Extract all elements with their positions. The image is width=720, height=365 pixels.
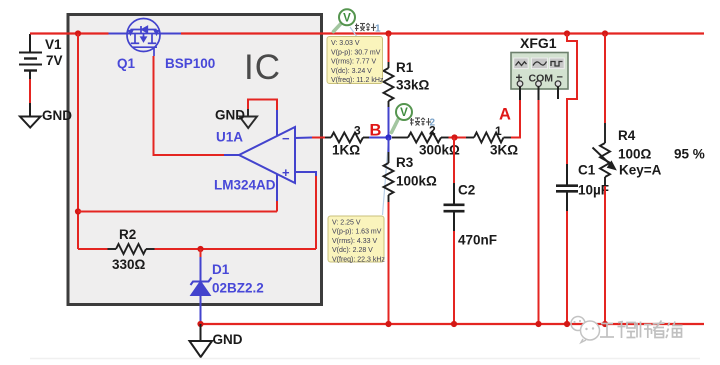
svg-text:V: V: [343, 13, 351, 25]
svg-text:XFG1: XFG1: [520, 35, 557, 51]
ground GND (op-amp): [240, 117, 258, 129]
diode D1 02BZ2.2 zener: [191, 257, 212, 323]
svg-text:33kΩ: 33kΩ: [396, 78, 430, 93]
capacitor C2 470nF: [444, 183, 465, 231]
junction dot (78,33.5): [75, 30, 81, 36]
wire minus input red: [312, 137, 325, 139]
svg-text:R3: R3: [396, 155, 414, 170]
svg-text:V(rms): 4.33 V: V(rms): 4.33 V: [332, 238, 377, 245]
watermark logo bubbles: [571, 317, 600, 343]
wire 1K to node B blue: [369, 137, 389, 139]
svg-text:V(p-p): 30.7 mV: V(p-p): 30.7 mV: [331, 49, 381, 56]
probe 1 circle: [339, 9, 355, 25]
svg-text:V1: V1: [45, 37, 62, 52]
wire op-amp vee down: [276, 201, 278, 212]
svg-text:V(freq): 11.2 kHz: V(freq): 11.2 kHz: [331, 77, 384, 84]
capacitor C1 10uF: [556, 164, 578, 211]
wire R4 bottom red: [604, 186, 606, 324]
junction dot (454.5,137.5): [451, 134, 457, 140]
transistor Q1 BSP100: [127, 19, 160, 57]
wire C1 bottom red: [566, 211, 568, 324]
svg-text:IC: IC: [244, 48, 281, 87]
junction dot (605,324): [602, 321, 608, 327]
op-amp U1A LM324AD: [239, 109, 316, 201]
svg-text:Key=A: Key=A: [619, 163, 662, 178]
svg-text:V(freq): 22.3 kHz: V(freq): 22.3 kHz: [332, 256, 385, 263]
wire Q1 source lead blue left: [109, 33, 129, 35]
probe 1 callout line: [350, 27, 357, 37]
pin stub XFG com: [538, 87, 540, 101]
label probe2 (tan zhen 2): [410, 118, 431, 126]
junction dot (454,324): [451, 321, 457, 327]
svg-text:A: A: [499, 106, 511, 124]
wire R1 top red: [388, 34, 390, 63]
wire op-amp vcc to GND: [248, 100, 277, 111]
svg-text:7V: 7V: [46, 53, 63, 68]
junction node B dot: [385, 134, 391, 140]
wire red at junction 454: [449, 137, 467, 139]
potentiometer R4 100ohm: [593, 123, 616, 186]
label probe1 (tan zhen 1): [355, 24, 376, 32]
junction dot (389,33.5): [385, 30, 391, 36]
svg-text:GND: GND: [213, 332, 243, 347]
wire XFG com down: [538, 100, 540, 324]
svg-text:V(dc): 2.28 V: V(dc): 2.28 V: [332, 247, 373, 254]
svg-text:LM324AD: LM324AD: [214, 178, 276, 193]
ground GND (battery): [20, 117, 41, 128]
svg-text:BSP100: BSP100: [165, 56, 215, 71]
resistor 3Kohm (net 1): [466, 133, 511, 143]
measurement box probe 2: [328, 216, 384, 262]
svg-text:95 %: 95 %: [674, 147, 705, 162]
wire feedback horizontal y=211.5: [78, 211, 277, 213]
junction dot (605,33.5): [602, 30, 608, 36]
svg-text:V(dc): 3.24 V: V(dc): 3.24 V: [331, 68, 372, 75]
battery V1: [19, 34, 42, 116]
probe 2 stem: [392, 119, 399, 133]
junction dot (567,324): [564, 321, 570, 327]
measurement box probe 1: [327, 37, 383, 84]
wire op-amp output stub blue: [224, 154, 239, 156]
wire to bottom GND: [200, 324, 202, 341]
svg-text:330Ω: 330Ω: [112, 257, 146, 272]
svg-text:R2: R2: [119, 227, 136, 242]
svg-text:V(p-p): 1.63 mV: V(p-p): 1.63 mV: [332, 229, 382, 236]
pin stub XFG plus: [519, 87, 521, 101]
svg-text:2: 2: [429, 124, 436, 138]
resistor 1Kohm (net 3): [325, 133, 369, 143]
faint bottom artifact line: [30, 358, 700, 360]
svg-text:R1: R1: [396, 60, 414, 75]
svg-text:D1: D1: [212, 262, 230, 277]
watermark text gong cheng shi kan hai: [600, 321, 683, 339]
svg-text:V(rms): 7.77 V: V(rms): 7.77 V: [331, 59, 376, 66]
svg-text:C2: C2: [458, 183, 475, 198]
svg-text:GND: GND: [42, 108, 72, 123]
wire plus input down to R2 row: [315, 176, 317, 249]
wire bottom rail (GND net): [201, 323, 705, 325]
wire R2 row left red: [78, 248, 108, 250]
svg-text:470nF: 470nF: [458, 233, 497, 248]
resistor 300kohm (net 2): [392, 133, 449, 143]
svg-text:C1: C1: [578, 163, 596, 178]
probe 2 callout line: [383, 140, 389, 215]
resistor R2 330ohm: [108, 244, 155, 254]
svg-text:100Ω: 100Ω: [618, 147, 652, 162]
wire R3 bottom red: [388, 202, 390, 324]
svg-text:R4: R4: [618, 128, 636, 143]
ground GND (bottom): [190, 341, 213, 357]
svg-text:V: 3.03 V: V: 3.03 V: [331, 40, 360, 47]
probe 1 stem: [334, 24, 342, 32]
wire battery negative (red segment): [29, 79, 31, 103]
wire top rail (7V net): [30, 32, 109, 34]
wire left vertical x=78: [77, 34, 79, 250]
svg-text:U1A: U1A: [216, 130, 243, 145]
junction dot (538.5,324): [535, 321, 541, 327]
wire node B down blue: [388, 138, 390, 153]
svg-text:Q1: Q1: [117, 56, 136, 71]
junction dot (201,324): [197, 321, 203, 327]
svg-text:100kΩ: 100kΩ: [396, 174, 437, 189]
junction dot (78,211.5): [75, 208, 81, 214]
svg-text:3: 3: [354, 124, 361, 138]
svg-text:1: 1: [375, 24, 381, 35]
svg-text:V: 2.25 V: V: 2.25 V: [332, 220, 361, 227]
probe 2 circle: [396, 104, 412, 120]
svg-text:+: +: [282, 165, 290, 180]
svg-text:1KΩ: 1KΩ: [332, 143, 360, 158]
wire D1 top red: [200, 249, 202, 257]
wire XFG minus jog from top rail: [567, 34, 577, 165]
wire node A up to XFG plus: [511, 100, 520, 138]
junction dot (388.5,324): [385, 321, 391, 327]
wire Q1 gate to op-amp output: [154, 56, 225, 155]
wire R1 bottom blue to node B: [388, 107, 390, 137]
pin stub XFG minus: [557, 87, 559, 100]
resistor R3 100k: [384, 152, 394, 202]
wire C2 bottom red: [453, 231, 455, 324]
wire Q1 drain lead blue right: [160, 33, 182, 35]
svg-text:GND: GND: [215, 108, 245, 123]
resistor R1 33k: [384, 62, 394, 107]
wire R4 top red: [604, 34, 606, 124]
svg-text:V: V: [400, 107, 408, 119]
instrument XFG1: [511, 53, 568, 90]
IC block outline: [68, 15, 322, 305]
svg-text:−: −: [282, 131, 290, 146]
junction dot (567,33.5): [564, 30, 570, 36]
svg-text:1: 1: [495, 124, 502, 138]
wire C2 top red: [453, 138, 455, 184]
svg-text:02BZ2.2: 02BZ2.2: [212, 281, 264, 296]
wire R2 row right red: [155, 248, 317, 250]
svg-text:3KΩ: 3KΩ: [490, 143, 518, 158]
junction dot (201,249): [197, 246, 203, 252]
